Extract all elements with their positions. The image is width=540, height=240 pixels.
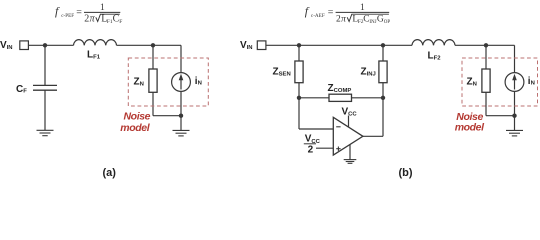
node junction at ground tap (a) bbox=[179, 114, 183, 118]
current source i_N circle (a) bbox=[172, 73, 191, 92]
node junction at C_F tap bbox=[43, 43, 47, 47]
wire i_N bottom lead (a) bbox=[180, 91, 182, 115]
node junction at Z_INJ bottom bbox=[381, 96, 385, 100]
current source i_N circle (b) bbox=[505, 73, 524, 92]
svg-text:c-AEF: c-AEF bbox=[311, 13, 325, 19]
capacitor C_F bbox=[33, 85, 57, 90]
op-amp inverting input minus sign bbox=[336, 126, 340, 128]
node junction at Z_INJ top bbox=[381, 43, 385, 47]
noise model dashed red box (b) bbox=[462, 58, 538, 106]
inductor L_F2 bbox=[412, 40, 455, 46]
svg-text:(b): (b) bbox=[399, 167, 413, 179]
svg-text:1: 1 bbox=[100, 3, 105, 13]
svg-text:model: model bbox=[455, 121, 485, 133]
svg-text:(a): (a) bbox=[103, 167, 117, 179]
svg-text:model: model bbox=[120, 122, 150, 134]
op-amp non-inverting input plus sign bbox=[336, 147, 340, 151]
current source i_N arrow head (a) bbox=[179, 74, 184, 80]
current source i_N arrow shaft (a) bbox=[180, 77, 182, 90]
svg-text:2: 2 bbox=[84, 13, 89, 24]
wire bottom bus Z_N to i_N (b) bbox=[486, 115, 515, 117]
impedance Z_N (a) bbox=[149, 69, 157, 92]
formula f_c-AEF = 1/(2*pi*sqrt(L_F2*C_INJ*G_OP)) bbox=[305, 3, 391, 25]
svg-text:INJ: INJ bbox=[369, 20, 376, 25]
wire Z_SEN top lead bbox=[298, 45, 300, 61]
wire op-amp output bbox=[363, 135, 383, 137]
wire Z_N bottom lead (b) bbox=[485, 92, 487, 115]
wire Z_N top lead (b) bbox=[485, 45, 487, 69]
ground below op-amp bbox=[344, 160, 357, 164]
svg-text:OP: OP bbox=[384, 20, 391, 25]
node junction at Z_SEN bottom bbox=[297, 96, 301, 100]
svg-text:=: = bbox=[76, 7, 82, 18]
wire top rail port to inductor L_F2 bbox=[266, 44, 412, 46]
wire i_N top lead (a) bbox=[180, 45, 182, 72]
wire V_CC supply stub bbox=[348, 116, 350, 128]
wire output up to Z_INJ node bbox=[382, 98, 384, 137]
wire C_F bottom lead bbox=[44, 90, 46, 130]
node junction at ground tap (b) bbox=[512, 114, 516, 118]
wire ground stem (b) bbox=[514, 116, 516, 131]
wire C_F top lead bbox=[44, 45, 46, 85]
wire ground stem (a) bbox=[180, 116, 182, 131]
wire Z_COMP to Z_INJ node bbox=[352, 97, 384, 99]
wire feedback down to inverting input bbox=[298, 98, 300, 129]
node junction at Z_SEN top bbox=[297, 43, 301, 47]
wire Z_N top lead (a) bbox=[152, 45, 154, 69]
label V_CC/2 fraction bar bbox=[304, 143, 316, 145]
impedance Z_COMP bbox=[329, 94, 352, 101]
wire Z_SEN node to Z_COMP bbox=[299, 97, 329, 99]
svg-text:π: π bbox=[341, 14, 346, 24]
impedance Z_INJ bbox=[379, 61, 387, 83]
impedance Z_SEN bbox=[295, 61, 303, 83]
wire inverting input bbox=[299, 128, 333, 130]
wire inductor L_F1 to noise model (a) bbox=[117, 44, 182, 46]
svg-text:Noise: Noise bbox=[124, 111, 151, 123]
impedance Z_N (b) bbox=[482, 69, 490, 92]
ground below noise model (b) bbox=[506, 130, 523, 136]
wire Z_INJ bottom lead bbox=[382, 83, 384, 98]
wire port to inductor L_F1 bbox=[28, 44, 73, 46]
port V_IN square terminal (a) bbox=[20, 41, 29, 50]
svg-text:2: 2 bbox=[308, 145, 314, 156]
wire op-amp negative supply stub bbox=[349, 145, 351, 160]
wire i_N bottom lead (b) bbox=[514, 91, 516, 115]
node junction at Z_N top (b) bbox=[484, 43, 488, 47]
ground below C_F bbox=[37, 130, 54, 135]
current source i_N arrow head (b) bbox=[512, 74, 517, 80]
formula f_c-PEF = 1/(2*pi*sqrt(L_F1*C_F)) bbox=[55, 3, 122, 25]
svg-text:1: 1 bbox=[360, 3, 365, 13]
svg-text:c-PEF: c-PEF bbox=[61, 13, 74, 19]
svg-text:=: = bbox=[328, 7, 334, 18]
wire i_N top lead (b) bbox=[514, 45, 516, 72]
inductor L_F1 bbox=[74, 40, 117, 46]
wire bottom bus Z_N to i_N (a) bbox=[153, 115, 181, 117]
op-amp U1 triangle bbox=[333, 117, 363, 155]
port V_IN square terminal (b) bbox=[257, 41, 266, 50]
wire non-inverting input bbox=[316, 147, 333, 149]
ground below noise model (a) bbox=[173, 130, 190, 136]
noise model dashed red box (a) bbox=[128, 58, 208, 106]
wire Z_N bottom lead (a) bbox=[152, 92, 154, 115]
wire inductor L_F2 to noise model (b) bbox=[455, 44, 515, 46]
wire Z_INJ top lead bbox=[382, 45, 384, 61]
node junction at Z_N top (a) bbox=[151, 43, 155, 47]
svg-text:F: F bbox=[119, 19, 122, 25]
wire Z_SEN bottom lead bbox=[298, 83, 300, 98]
current source i_N arrow shaft (b) bbox=[514, 77, 516, 90]
